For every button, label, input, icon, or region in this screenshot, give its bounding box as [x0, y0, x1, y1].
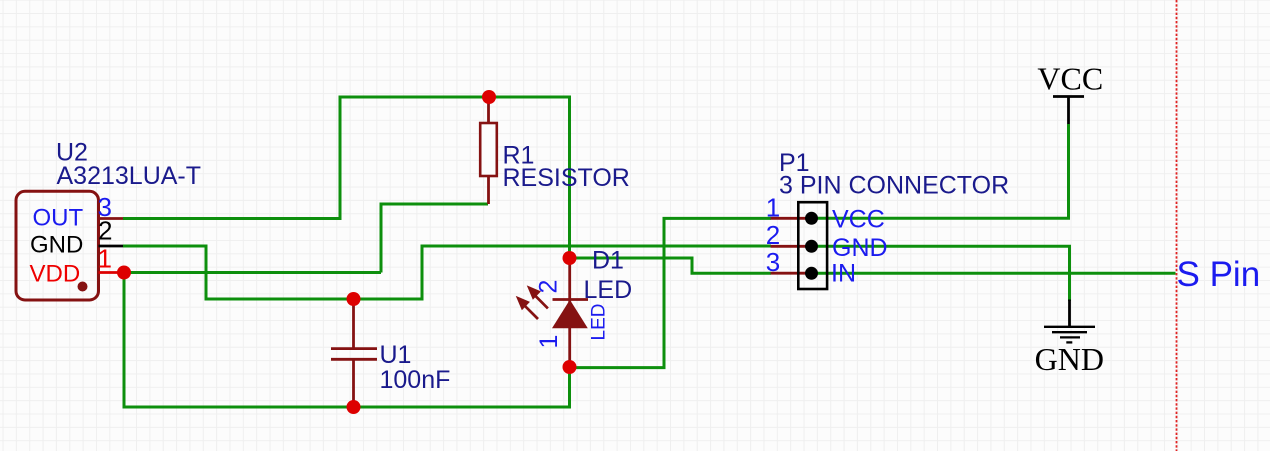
svg-text:RESISTOR: RESISTOR	[503, 164, 630, 192]
svg-text:GND: GND	[1035, 341, 1104, 377]
svg-text:3: 3	[766, 247, 780, 277]
svg-text:S Pin: S Pin	[1177, 255, 1261, 294]
svg-text:1: 1	[766, 193, 780, 223]
svg-text:2: 2	[535, 280, 563, 294]
svg-text:D1: D1	[592, 247, 624, 275]
svg-text:2: 2	[766, 220, 780, 250]
svg-text:GND: GND	[30, 231, 83, 258]
svg-text:U1: U1	[380, 341, 412, 369]
svg-text:VDD: VDD	[30, 261, 81, 288]
svg-text:VCC: VCC	[1037, 61, 1103, 97]
svg-text:3 PIN CONNECTOR: 3 PIN CONNECTOR	[779, 172, 1009, 200]
svg-text:1: 1	[535, 335, 563, 349]
svg-text:LED: LED	[584, 276, 633, 304]
svg-text:2: 2	[98, 216, 112, 246]
svg-text:OUT: OUT	[33, 204, 84, 231]
svg-text:1: 1	[98, 244, 112, 274]
svg-text:100nF: 100nF	[380, 366, 451, 394]
svg-text:A3213LUA-T: A3213LUA-T	[57, 162, 202, 190]
svg-text:VCC: VCC	[832, 206, 885, 234]
svg-text:IN: IN	[831, 260, 856, 288]
svg-text:LED: LED	[589, 304, 610, 341]
svg-text:GND: GND	[832, 234, 888, 262]
